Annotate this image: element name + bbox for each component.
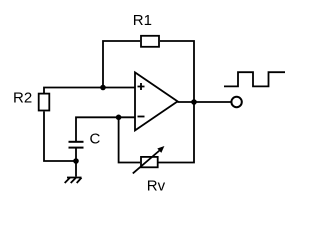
node: junction at capacitor bottom bbox=[73, 158, 79, 164]
wire capacitor bottom to ground bbox=[75, 149, 77, 177]
wire from R2 bottom to capacitor bottom junction bbox=[44, 112, 76, 162]
ground bbox=[65, 178, 82, 184]
svg-text:Rv: Rv bbox=[147, 177, 166, 194]
capacitor C bbox=[69, 142, 84, 148]
wire from capacitor top plate to op-amp - input bbox=[76, 117, 135, 142]
resistor R1 bbox=[141, 36, 159, 47]
output terminal bbox=[231, 97, 241, 107]
wire from - junction down to Rv left terminal bbox=[119, 117, 140, 162]
node: junction of + wire and R1 branch bbox=[100, 85, 106, 91]
node: junction of - wire and Rv branch bbox=[116, 115, 122, 121]
wire op-amp output to terminal bbox=[178, 101, 232, 103]
svg-text:R2: R2 bbox=[13, 89, 32, 106]
svg-text:R1: R1 bbox=[133, 12, 152, 29]
op-amp U1 bbox=[135, 72, 178, 130]
svg-text:C: C bbox=[90, 130, 101, 147]
node: output junction bbox=[191, 99, 197, 105]
wire from R1 right terminal down through output node to Rv right terminal bbox=[159, 41, 195, 163]
square wave symbol bbox=[224, 72, 285, 86]
resistor R2 bbox=[39, 94, 50, 111]
wire from + junction up to R1 left terminal bbox=[103, 41, 140, 88]
variable resistor Rv bbox=[133, 146, 165, 173]
wire from R2 top to op-amp + input bbox=[44, 88, 135, 94]
